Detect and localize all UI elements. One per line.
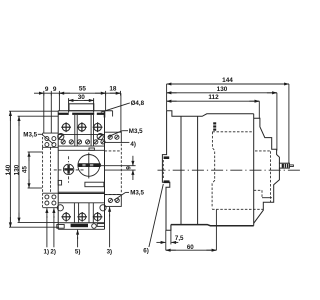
small black marks on top face [213, 122, 216, 124]
extension lines from top dim [44, 93, 121, 133]
front bulge outline [254, 118, 280, 163]
svg-text:9: 9 [125, 166, 132, 170]
top block bottom line [58, 145, 104, 147]
front body left edge [57, 111, 59, 230]
small solid ledge [262, 197, 272, 199]
inner verticals [180, 116, 182, 224]
top dim line 9/9/55/18 [34, 91, 121, 96]
side view top outline [167, 111, 254, 117]
reset button on left edge [58, 180, 61, 185]
top block corner circles [58, 134, 64, 140]
svg-text:5): 5) [75, 248, 81, 255]
svg-text:9: 9 [45, 86, 49, 93]
dim 130 [167, 92, 277, 94]
bottom block [58, 202, 104, 204]
hidden strap lines right [105, 144, 122, 195]
clip detent and lower left edge [166, 182, 171, 230]
svg-text:30: 30 [78, 94, 86, 101]
knob handle bar [78, 163, 101, 167]
svg-text:144: 144 [222, 77, 233, 84]
centerline dash-dot [158, 169, 316, 171]
bottom labels [44, 248, 149, 256]
top block dividers [75, 115, 94, 146]
svg-text:130: 130 [14, 164, 21, 175]
phillips screw left of knob [63, 164, 73, 174]
thick top bar [58, 113, 104, 115]
side view left edge and DIN clip [162, 111, 166, 183]
top-right mounting ear [105, 132, 122, 142]
small dim 9 (knob height) [101, 156, 136, 180]
left vertical dim 45 [28, 152, 42, 188]
dim 7,5 [156, 225, 178, 251]
top cap strip [58, 110, 112, 112]
small screw row [61, 140, 105, 144]
bottom-right mounting ear [105, 195, 122, 207]
bottom strip details [57, 225, 64, 229]
hidden strap lines left [43, 147, 51, 193]
svg-text:2): 2) [50, 248, 56, 255]
nameplate [85, 182, 104, 187]
svg-text:112: 112 [208, 94, 219, 101]
bottom terminal screws [61, 212, 102, 222]
svg-text:M3,5: M3,5 [129, 128, 143, 135]
top terminal screws (phillips) [61, 122, 102, 132]
svg-text:130: 130 [217, 86, 228, 93]
bottom leader 5) [77, 230, 79, 239]
svg-text:6): 6) [143, 248, 149, 255]
hidden contour dashed center [212, 132, 270, 210]
bottom leader 1) [46, 208, 48, 218]
left vertical dim 140 [9, 111, 59, 227]
svg-text:4): 4) [130, 141, 136, 148]
dim 30 [69, 98, 94, 112]
svg-text:1): 1) [44, 248, 50, 255]
svg-text:55: 55 [79, 86, 87, 93]
top block inner line [58, 134, 104, 136]
dim 144 [167, 83, 289, 85]
front body right edge [104, 111, 106, 230]
svg-text:18: 18 [109, 86, 117, 93]
svg-text:9: 9 [53, 86, 57, 93]
bottom leader 3) [109, 207, 111, 217]
raised cap rect [69, 104, 94, 111]
right extension lines [167, 84, 289, 163]
svg-text:45: 45 [21, 166, 28, 174]
svg-text:60: 60 [187, 244, 194, 251]
top-left mounting ear [43, 133, 59, 147]
svg-text:Ø4,8: Ø4,8 [131, 100, 145, 107]
rotary knob [78, 155, 100, 177]
leader 6) [149, 184, 163, 247]
dim 60 [166, 210, 217, 251]
dim text 9 9 55 18 [45, 86, 117, 93]
clip thick top/bottom [164, 156, 170, 159]
svg-text:7,5: 7,5 [175, 235, 184, 242]
section line above bottom block [58, 191, 104, 193]
svg-text:140: 140 [5, 164, 12, 175]
svg-text:M3,5: M3,5 [130, 190, 144, 197]
svg-text:M3,5: M3,5 [23, 131, 37, 138]
svg-text:3): 3) [107, 248, 113, 255]
knob shaft side [279, 163, 289, 168]
bottom block bottom edge [58, 222, 104, 224]
dim 112 [167, 100, 260, 102]
front face main vertical [253, 114, 255, 226]
bottom leader 2) [53, 208, 55, 218]
switch section top line with notch [58, 149, 104, 151]
left vertical dim 130 [18, 116, 59, 222]
clip inner dashed [162, 160, 164, 179]
bottom-left mounting ear [43, 193, 59, 208]
